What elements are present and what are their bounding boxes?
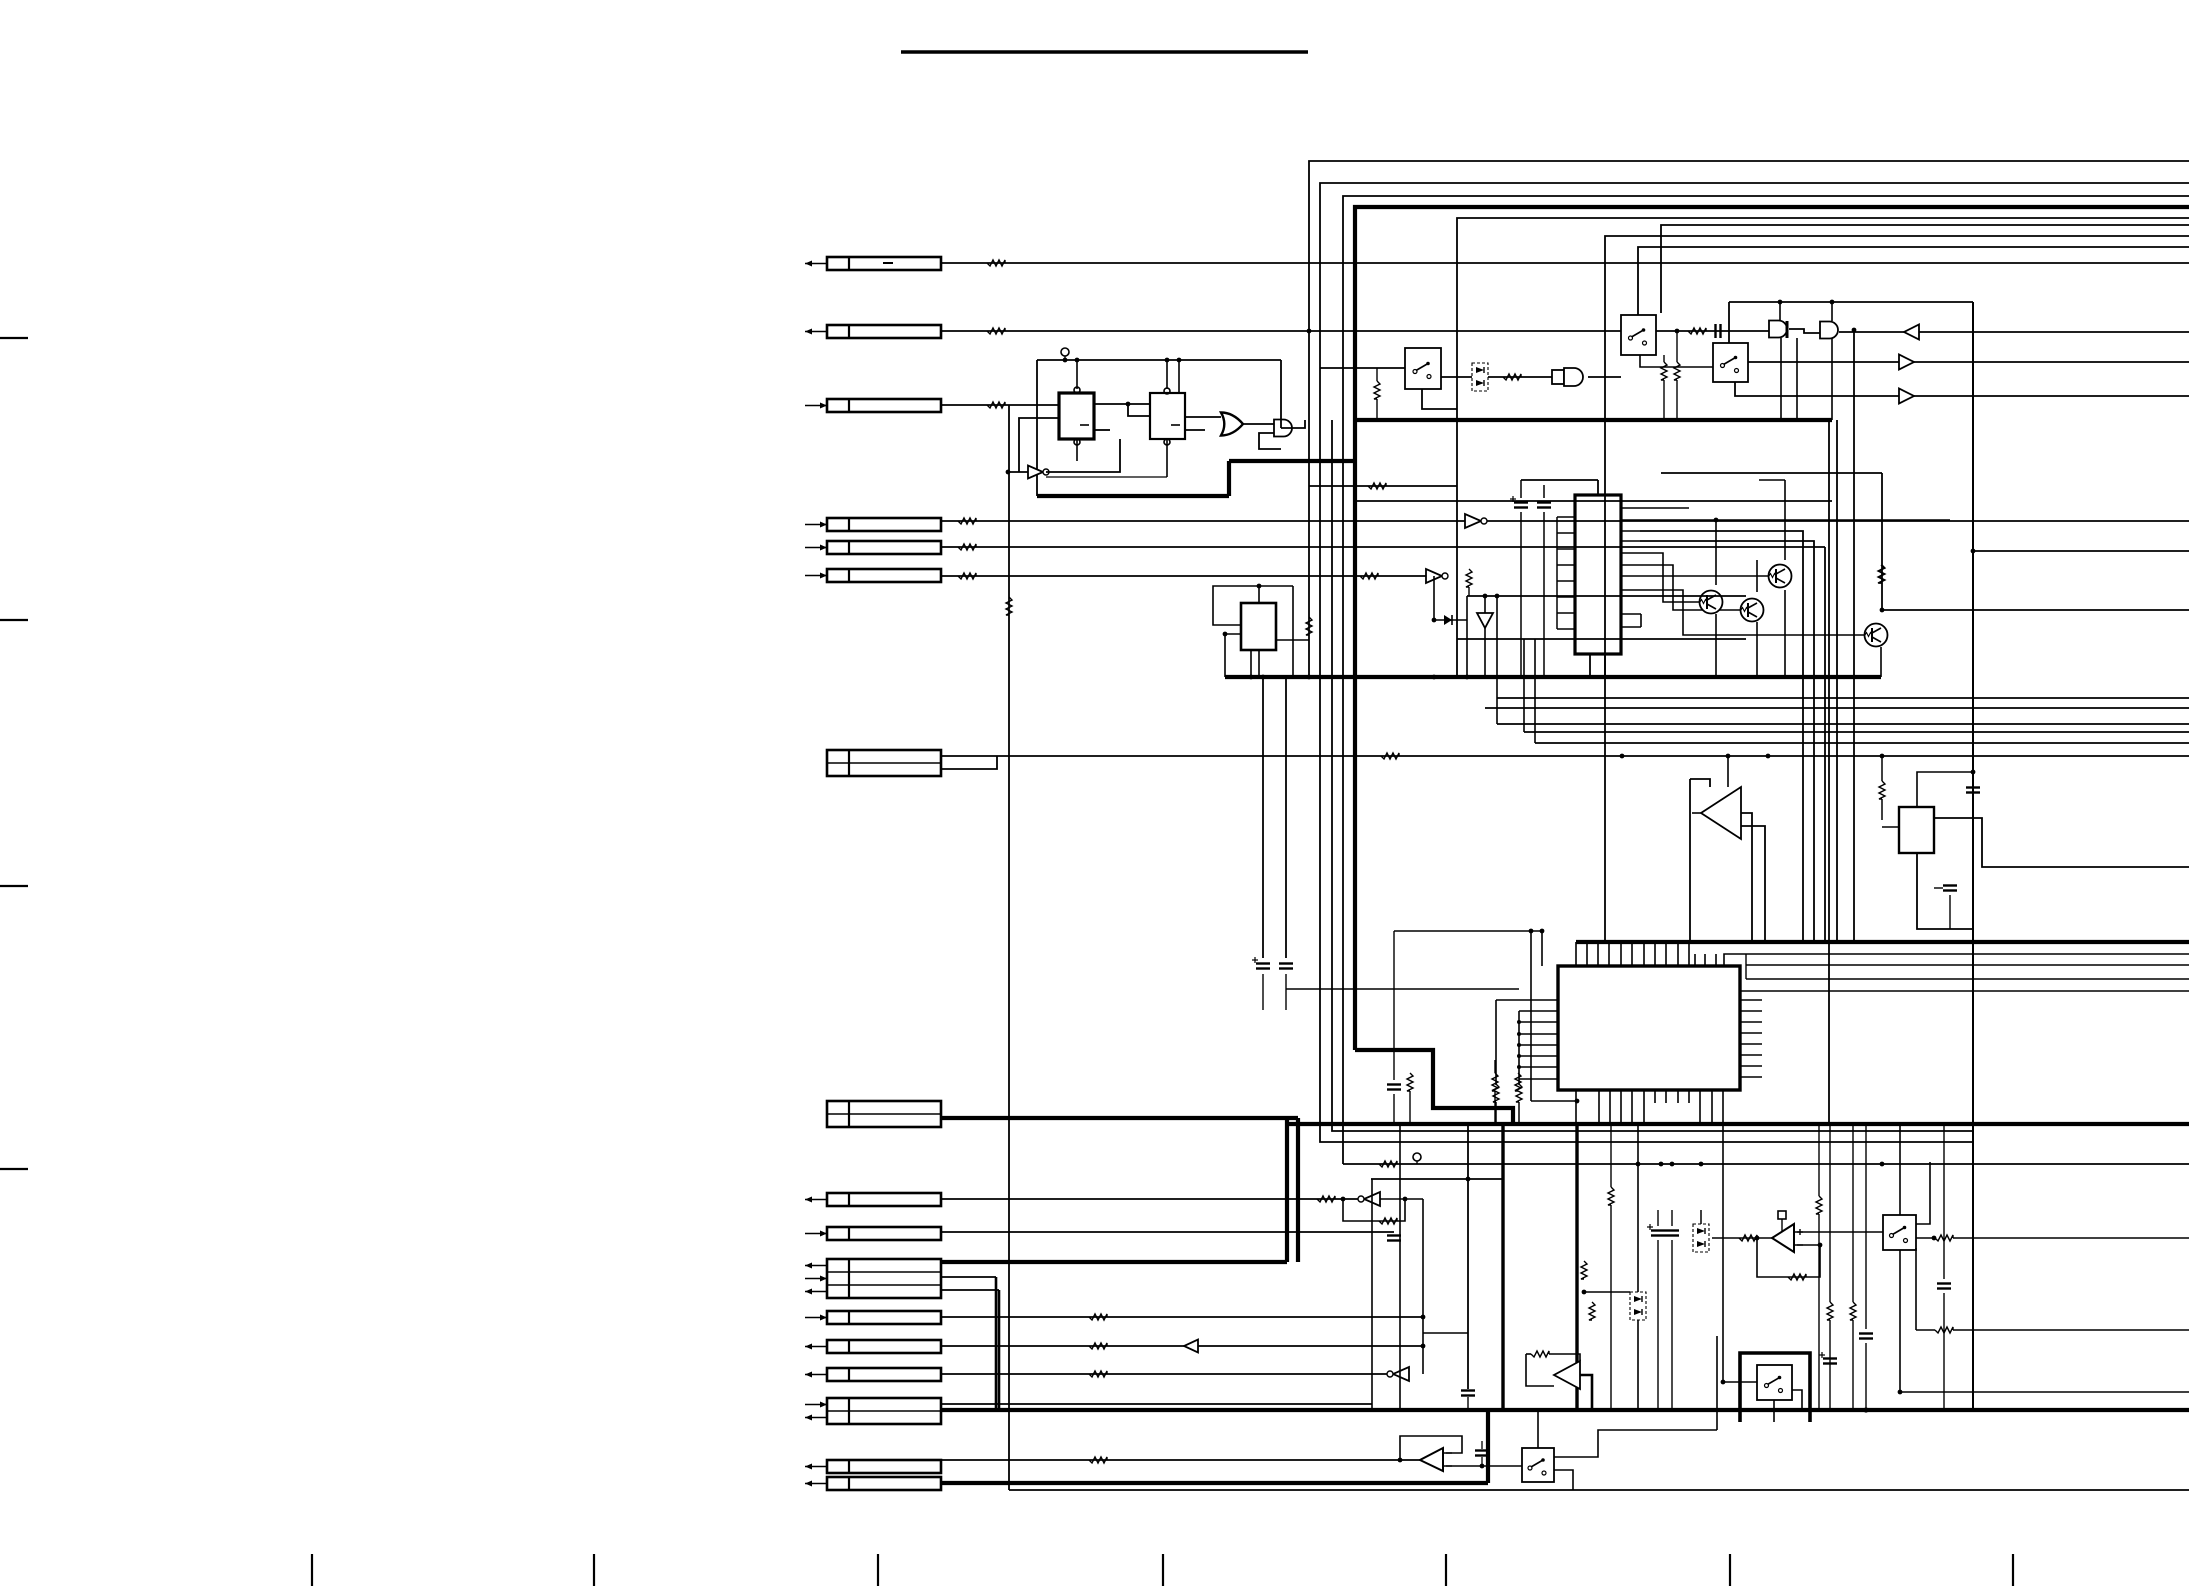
wire CN6 net: [941, 575, 1426, 577]
wire to Q2 base: [1621, 565, 1741, 610]
wire vert x1524: [1523, 639, 1525, 732]
wire y991: [1740, 990, 2189, 992]
resistor R23: [1879, 781, 1885, 799]
op-amp U21: [1772, 1224, 1794, 1252]
left margin tick: [0, 885, 28, 887]
wire bus corner L6: [1605, 236, 2189, 942]
wire U11 fb: [1433, 576, 1435, 620]
bottom margin tick: [1445, 1554, 1447, 1586]
bottom margin tick: [593, 1554, 595, 1586]
bus vertical a: [1285, 1118, 1289, 1262]
wire U7b down: [1796, 338, 1798, 420]
wire U19 top: [1917, 772, 1973, 807]
bottom margin tick: [311, 1554, 313, 1586]
dual diode D4: [1693, 1224, 1709, 1252]
resistor R28: [1006, 597, 1012, 615]
wire bus corner L3: [1343, 196, 2189, 1164]
wire U7 down: [1780, 338, 1782, 420]
resistor R9: [1317, 1196, 1335, 1202]
wire U21 - in: [1794, 1244, 1820, 1246]
wire U8 out down: [1853, 330, 1855, 942]
wire U18 surround: [1689, 779, 1691, 943]
wire CN15 row1: [941, 1403, 1372, 1405]
wire y965: [1746, 964, 2189, 966]
resistor R16: [1374, 381, 1380, 399]
resistor R14: [1368, 483, 1386, 489]
thick vert x1503: [1501, 1124, 1504, 1410]
buffer U9: [1904, 325, 1919, 340]
wire CN7 row2 link: [941, 756, 997, 769]
or-gate U3: [1221, 413, 1243, 436]
resistor R19: [1674, 362, 1680, 380]
diode D2: [1444, 615, 1452, 625]
bus y677 (thick): [1225, 675, 1881, 679]
wire CN17 vert: [1486, 1410, 1490, 1483]
connector CN6: [827, 569, 941, 582]
wire U19 left: [1882, 826, 1899, 828]
driver IC U16: [1575, 495, 1621, 654]
and-gate U8: [1820, 322, 1838, 339]
terminal T1: [1061, 348, 1069, 356]
resistor R2: [987, 328, 1005, 334]
wire to Q1 base: [1621, 553, 1699, 602]
resistor R7: [1360, 573, 1378, 579]
wire cap drop b: [1285, 677, 1287, 958]
wire vert x1535: [1534, 639, 1536, 743]
capacitor C6: [1966, 786, 1980, 788]
wire S2 out: [1656, 330, 1769, 332]
wire y531 corner: [1640, 531, 1803, 942]
wire U21 out: [1712, 1237, 1772, 1239]
inverter U24 loop: [1343, 1199, 1405, 1221]
and-gate U4: [1274, 420, 1292, 437]
left margin tick: [0, 337, 28, 339]
bus FF out (thick): [1229, 459, 1355, 463]
resistor R18: [1661, 362, 1667, 380]
wire x1468 vert: [1467, 1124, 1469, 1389]
staple box (thick): [1740, 1353, 1810, 1422]
wire y225 corner: [1661, 225, 2189, 313]
wire FF left vert: [1036, 360, 1038, 496]
wire bus corner L7: [1638, 247, 2189, 315]
wire U7 to U8: [1789, 329, 1820, 333]
wire CN14 net: [941, 1373, 1390, 1375]
bottom margin tick: [1729, 1554, 1731, 1586]
wire U16 pin net: [1621, 530, 1640, 532]
bus vertical b: [1296, 1118, 1300, 1262]
resistor R26: [1492, 1073, 1498, 1091]
wire y1392: [1900, 1391, 2189, 1393]
wire U2 Qbar to OR: [1185, 429, 1205, 431]
wire AND out right: [1293, 420, 1305, 428]
wire S3 out: [1748, 361, 2189, 363]
resistor R13: [1089, 1457, 1107, 1463]
wire U18 in: [1727, 756, 1729, 787]
capacitor C12: [1665, 1229, 1679, 1231]
resistor R1: [987, 260, 1005, 266]
connector CN17: [827, 1477, 941, 1490]
flip-flop U2: [1150, 393, 1185, 439]
wire vert x1293: [1292, 586, 1294, 677]
wire S4 nets: [1554, 1430, 1717, 1457]
wire U17 left pin: [1225, 634, 1241, 677]
wire x1423 vert: [1422, 1199, 1424, 1374]
capacitor C9: [1461, 1389, 1475, 1391]
wire bus corner L2: [1320, 183, 2189, 1142]
transistor Q3: [1769, 565, 1792, 588]
wire D1 to gate: [1488, 376, 1552, 378]
resistor R36: [1816, 1196, 1822, 1214]
capacitor C11: [1651, 1229, 1665, 1231]
transistor Q2: [1741, 599, 1764, 622]
wire U8 out: [1839, 331, 2189, 333]
junction on bus: [1863, 1407, 1868, 1412]
bottom margin tick: [877, 1554, 879, 1586]
wire y1333: [1423, 1332, 1468, 1334]
connector CN7: [827, 750, 941, 776]
bottom margin tick: [1162, 1554, 1164, 1586]
connector CN2: [827, 325, 941, 338]
wire FF top net: [1037, 359, 1281, 361]
capacitor C2: [1514, 501, 1528, 503]
resistor R27: [1515, 1073, 1521, 1091]
wire U8 down: [1831, 338, 1833, 420]
connector CN13: [827, 1340, 941, 1353]
capacitor C4: [1256, 962, 1270, 964]
buffer U11: [1426, 569, 1442, 583]
wire cap drop a: [1262, 677, 1264, 958]
wire AND in2: [1259, 433, 1281, 449]
wire vert x1837: [1836, 420, 1838, 942]
wire y541 corner: [1640, 541, 1814, 942]
wire bus corner L1: [1309, 161, 2189, 331]
connector CN9: [827, 1193, 941, 1206]
wire S6 nets: [1723, 1381, 1757, 1383]
junction CN2/vert: [1307, 329, 1312, 334]
wire U1 Qbar out: [1094, 429, 1110, 431]
wire U16 pin net: [1621, 540, 1640, 542]
wires U20 left pins: [1496, 999, 1558, 1001]
op-amp U18: [1701, 787, 1741, 839]
connector CN5: [827, 541, 941, 554]
resistor R20: [1879, 565, 1885, 583]
resistor R11: [1089, 1343, 1107, 1349]
wires U20 bottom pins: [1575, 1090, 1577, 1124]
wire D5 link: [1584, 1291, 1630, 1293]
and-gate U6: [1552, 370, 1564, 384]
wire mid a: [1309, 485, 1457, 487]
wire U2 clear: [1166, 439, 1168, 477]
wire CN4 net: [941, 520, 2189, 522]
analog switch S1: [1405, 348, 1441, 389]
connector CN12: [827, 1311, 941, 1324]
capacitor C14: [1823, 1357, 1837, 1359]
bus corner L4 (thick): [1355, 207, 2189, 1050]
wire U16 pin net: [1621, 507, 1689, 509]
wire CN9 net: [941, 1198, 1361, 1200]
servo IC U17: [1241, 603, 1276, 650]
pnp arrow D3: [1477, 613, 1493, 628]
wire into S3 top: [1728, 302, 1730, 343]
wire y724: [1497, 723, 2189, 725]
wires U20 top pins: [1575, 942, 1577, 966]
wire CN7 net: [941, 755, 2189, 757]
buffer U15: [1899, 389, 1914, 404]
wire AND out up: [1281, 360, 1293, 428]
wire CN11 row2: [941, 1276, 996, 1278]
wire y596: [1467, 595, 1746, 597]
capacitor C1: [1714, 324, 1716, 338]
wire U2 preset: [1166, 360, 1168, 389]
bottom margin tick: [2012, 1554, 2014, 1586]
wire U17 right: [1276, 639, 1309, 641]
wire y551 to edge: [1973, 550, 2189, 552]
analog switch S6: [1757, 1365, 1792, 1400]
wires U20 right pins: [1740, 999, 1762, 1001]
inverter U13: [1393, 1367, 1409, 1381]
inductor L1: [1379, 1161, 1397, 1167]
wire vert x1497: [1496, 596, 1498, 724]
resistor R37: [1827, 1302, 1833, 1320]
wire CN5 net: [941, 546, 1825, 548]
wire U21 + in: [1794, 1231, 1883, 1233]
connector CN11: [827, 1259, 941, 1298]
resistor R38: [1850, 1302, 1856, 1320]
wire y708: [1485, 707, 2189, 709]
analog switch S3: [1713, 343, 1748, 382]
wire y743: [1535, 742, 2189, 744]
and-gate U7: [1769, 321, 1787, 338]
wire U7/U8 top feeds: [1729, 301, 1973, 303]
connector CN10: [827, 1227, 941, 1240]
resistor R34: [1935, 1235, 1953, 1241]
wire CN11 vert b: [998, 1290, 1001, 1410]
dual diode D1: [1472, 363, 1488, 391]
wire U20 right entry: [1724, 954, 2189, 966]
wire U2 pin: [1178, 360, 1180, 393]
wire to Q4 base: [1621, 590, 1864, 635]
resistor R31: [1788, 1274, 1806, 1280]
dual diode D5: [1630, 1292, 1646, 1320]
analog switch S4: [1522, 1448, 1554, 1482]
wire U16 pin net: [1621, 519, 1950, 521]
wire U1 clock: [1019, 418, 1059, 472]
analog switch S2: [1621, 315, 1656, 355]
connector CN15: [827, 1398, 941, 1424]
connector CN16: [827, 1460, 941, 1473]
analog switch S5: [1883, 1215, 1916, 1250]
bus y942 (thick): [1576, 940, 2189, 944]
wire CN16 net: [941, 1459, 1420, 1461]
resistor R25: [1407, 1073, 1413, 1091]
wire S1 in: [1320, 367, 1405, 369]
resistor R22: [1306, 617, 1312, 635]
wire S1 to D1: [1441, 376, 1472, 378]
resistor R12: [1089, 1371, 1107, 1377]
wire U16 top pin: [1597, 480, 1599, 495]
wire U23 fb rect: [1400, 1436, 1462, 1460]
resistor R30: [1739, 1235, 1757, 1241]
wire U19 bottom: [1917, 853, 1973, 929]
capacitor C16: [1475, 1449, 1489, 1451]
resistor R10: [1089, 1314, 1107, 1320]
wire U20 left entry nets: [1394, 930, 1542, 932]
wire U17 bottom pins: [1250, 650, 1252, 677]
wire U16 bottom pin b: [1604, 654, 1606, 677]
connector CN1: [827, 257, 941, 270]
wire y979: [1746, 978, 2189, 980]
wire U1 clear: [1076, 439, 1078, 461]
terminal T3: [1778, 1211, 1786, 1219]
wire vertical x1009: [1008, 405, 1010, 1490]
capacitor C3: [1537, 501, 1551, 503]
wire x1531 vert: [1530, 931, 1532, 1101]
wire U16 pin nets lower: [1621, 613, 1641, 615]
wire y698: [1497, 697, 2189, 699]
resistor R24: [1516, 1084, 1522, 1102]
wire U2 Q to OR: [1185, 416, 1221, 418]
wire S3 net lower: [1735, 382, 2189, 396]
wire S1 bottom: [1422, 389, 1457, 409]
bus CN15 row2 (thick): [941, 1408, 1973, 1412]
wire diode net: [1434, 619, 1467, 621]
wire U19 out: [1934, 818, 2189, 867]
buffer U10: [1465, 514, 1481, 528]
wire y732: [1524, 731, 2189, 733]
transistor Q1: [1700, 591, 1723, 614]
wire Q collectors/emitters: [1715, 520, 1717, 585]
wire CN3 net: [941, 404, 1059, 406]
bus CN11 row1: [941, 1260, 1287, 1264]
wire U2 clear join: [1046, 476, 1167, 478]
wire U16 bottom pin a: [1589, 654, 1591, 677]
resistor R39: [1531, 1351, 1549, 1357]
wire left pins U16: [1557, 516, 1575, 518]
wire y473: [1661, 472, 1882, 474]
wire inverter in: [1008, 471, 1028, 473]
resistor R24b: [1493, 1084, 1499, 1102]
bus FF right vert (thick): [1227, 461, 1231, 496]
wire y1490 bottom: [1009, 1489, 2189, 1491]
capacitor C15: [1937, 1282, 1951, 1284]
resistor R35: [1935, 1327, 1953, 1333]
capacitor C5: [1279, 962, 1293, 964]
wire S5 nets: [1899, 1124, 1901, 1215]
bus snake (thick): [1355, 1050, 1513, 1124]
resistor R32: [1581, 1261, 1587, 1279]
connector CN3: [827, 399, 941, 412]
wire inverter out: [1046, 439, 1120, 472]
wire OR to AND: [1243, 423, 1274, 425]
wire CN13 net: [941, 1345, 1423, 1347]
bus y1124 (thick): [1287, 1122, 2189, 1126]
wire U22 fb box: [1526, 1354, 1554, 1386]
resistor R8: [1381, 753, 1399, 759]
capacitor C7: [1943, 884, 1957, 886]
resistor R15: [1503, 374, 1521, 380]
left margin tick: [0, 1168, 28, 1170]
wire CN1 net: [941, 262, 2189, 264]
bus continues right: [1973, 1408, 2189, 1412]
left margin tick: [0, 619, 28, 621]
capacitor C8: [1387, 1083, 1401, 1085]
wire CN10 net: [941, 1231, 1394, 1233]
inverter U24: [1364, 1192, 1380, 1206]
wire U1 Q to U2: [1094, 403, 1150, 405]
wire U20 left rail: [1518, 1011, 1520, 1085]
wire to Q3 base: [1621, 575, 1768, 577]
flip-flop U1: [1059, 393, 1094, 439]
wire y639: [1457, 638, 1746, 640]
wire U20 left rail b: [1495, 1000, 1497, 1085]
connector CN14: [827, 1368, 941, 1381]
syscon IC U20: [1558, 966, 1740, 1090]
wire CN12 net: [941, 1316, 1423, 1318]
wire CN17 net (thick): [941, 1481, 1488, 1485]
wire CN2 net: [941, 330, 1621, 332]
title rule: [901, 50, 1308, 54]
op-amp U23: [1420, 1448, 1443, 1471]
resistor R21: [1466, 569, 1472, 587]
thick vert x1577: [1575, 1124, 1578, 1410]
connector CN4: [827, 518, 941, 531]
wire y549 corner: [1824, 547, 1826, 942]
wire CN11 row3: [941, 1289, 999, 1291]
buffer U14: [1899, 355, 1914, 370]
wire U6 out: [1588, 376, 1621, 378]
wire CN11 vert a: [995, 1277, 998, 1410]
resistor R3: [987, 402, 1005, 408]
resistor R5: [958, 544, 976, 550]
wire y610 to edge: [1882, 609, 2189, 611]
resistor R17: [1688, 328, 1706, 334]
transistor Q4: [1865, 624, 1888, 647]
resistor R29: [1379, 1218, 1397, 1224]
wire U1 preset: [1076, 360, 1078, 389]
wire vertical x1973: [1972, 302, 1974, 1410]
wire vertical x1332 corner: [1332, 420, 1973, 1131]
resistor R6: [958, 573, 976, 579]
wire U23 + in: [1444, 1465, 1522, 1467]
wire y1164: [1343, 1163, 2189, 1165]
wire bus corner L5: [1457, 218, 2189, 677]
bus FF bottom (thick): [1037, 494, 1229, 498]
buffer U12: [1184, 1340, 1198, 1353]
connector CN8: [827, 1101, 941, 1127]
wire y1179: [1371, 1178, 1503, 1180]
wire U17 top: [1258, 586, 1260, 603]
bus mid (thick): [1355, 418, 1832, 422]
inverter U5: [1028, 466, 1043, 479]
op-amp U22: [1554, 1361, 1580, 1389]
wire S2 lower contact: [1640, 355, 1713, 367]
terminal T2: [1413, 1153, 1421, 1161]
resistor R40: [1589, 1302, 1595, 1320]
regulator U19: [1899, 807, 1934, 853]
wire vert x1309 lower: [1308, 331, 1310, 677]
wire vert x1829: [1828, 420, 1830, 1124]
wire vert x1467: [1466, 596, 1468, 677]
wire mid b: [1355, 500, 1832, 502]
wire U22 out: [1580, 1375, 1592, 1410]
capacitor C13: [1859, 1332, 1873, 1334]
resistor R33: [1608, 1187, 1614, 1205]
bus CN8 net (thick): [941, 1116, 1298, 1120]
capacitor C10: [1387, 1234, 1401, 1236]
resistor R4: [958, 518, 976, 524]
wire U21 fb: [1757, 1238, 1820, 1277]
